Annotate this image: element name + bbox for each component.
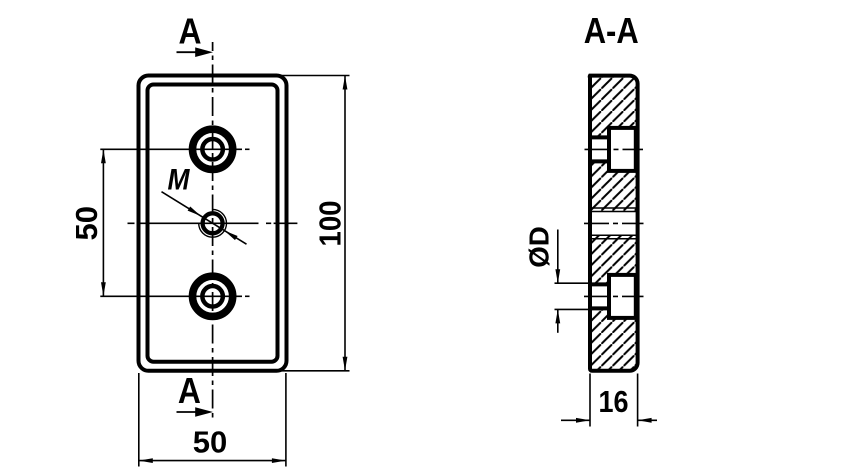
section bottom hole centerline — [584, 295, 644, 297]
top hole bore void — [588, 137, 609, 161]
top hole counterbore void — [609, 128, 636, 171]
dimension 50 bottom line — [139, 460, 286, 462]
thread major line top — [590, 207, 638, 209]
bottom hole counterbore void — [609, 275, 636, 318]
svg-text:100: 100 — [313, 201, 348, 247]
dimension 50 (bottom, width) extension lines — [138, 373, 140, 467]
bottom hole counterbore circle — [193, 276, 233, 316]
dimension OD line lower part — [557, 309, 559, 332]
top hole bore circle — [202, 139, 223, 160]
dimension 16 extension lines — [589, 374, 591, 427]
middle hole centerline — [128, 222, 299, 224]
svg-text:M: M — [168, 164, 191, 197]
thread minor line top — [590, 211, 638, 213]
bottom hole bore circle — [202, 286, 223, 307]
dimension 50 (left, hole spacing) line — [102, 149, 104, 296]
section outline — [590, 76, 638, 371]
leader line for M — [162, 192, 247, 245]
arrow left — [638, 418, 652, 423]
thread major line bottom — [590, 238, 638, 240]
section top hole centerline — [585, 148, 644, 150]
svg-text:A: A — [178, 370, 201, 411]
section middle centerline — [584, 222, 644, 224]
thread minor line bottom — [590, 234, 638, 236]
section cut arrow (bottom) — [177, 411, 197, 413]
dimension OD line upper part — [557, 230, 559, 284]
arrow up — [555, 309, 560, 323]
svg-text:ØD: ØD — [524, 226, 555, 268]
section cut arrow (top) — [177, 51, 197, 53]
top hole bore lines — [588, 135, 609, 139]
svg-text:A-A: A-A — [584, 10, 639, 51]
svg-text:50: 50 — [193, 425, 227, 460]
leader arrow upper — [188, 207, 201, 217]
dimension 100 line — [344, 76, 346, 371]
arrow right — [576, 418, 590, 423]
section body hatched area — [590, 76, 638, 371]
dimension OD extension lines — [555, 282, 591, 284]
svg-text:50: 50 — [69, 206, 104, 240]
vertical centerline of plate — [212, 42, 214, 420]
plate outer outline — [139, 76, 287, 371]
plate inner outline — [148, 85, 278, 362]
bottom hole bore lines — [588, 282, 609, 286]
bottom hole bore void — [588, 284, 609, 308]
dimension 100 (right) extension lines — [281, 75, 350, 77]
svg-text:A: A — [179, 11, 202, 52]
top hole centerline (also ext. line of 50 dim) — [100, 148, 242, 150]
middle threaded hole core circle — [203, 213, 223, 233]
arrow right — [272, 458, 286, 463]
arrow down — [101, 282, 106, 296]
arrow down — [555, 269, 560, 283]
arrow left — [139, 458, 153, 463]
thread hole void — [586, 212, 640, 236]
leader arrow lower — [224, 231, 237, 241]
top hole counterbore circle — [193, 129, 233, 169]
dimension 16 line right part — [638, 419, 657, 421]
svg-text:16: 16 — [599, 384, 629, 419]
middle hole thread arc — [199, 209, 227, 237]
dimension 16 line left part — [561, 419, 590, 421]
arrow down — [343, 357, 348, 371]
arrow up — [343, 76, 348, 90]
bottom hole centerline (also ext. line of 50 dim) — [100, 295, 242, 297]
arrow up — [101, 149, 106, 163]
